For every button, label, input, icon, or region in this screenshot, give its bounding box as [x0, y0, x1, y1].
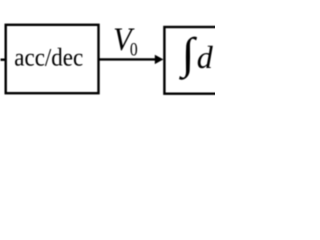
wire — [1, 59, 6, 61]
svg-text:0: 0 — [130, 39, 138, 60]
wire — [99, 58, 157, 60]
block acc/dec — [6, 25, 99, 93]
svg-text:d: d — [197, 39, 214, 75]
arrowhead — [155, 55, 164, 64]
svg-text:acc/dec: acc/dec — [14, 45, 83, 72]
block integrator — [164, 27, 234, 94]
svg-text:∫: ∫ — [179, 29, 198, 81]
